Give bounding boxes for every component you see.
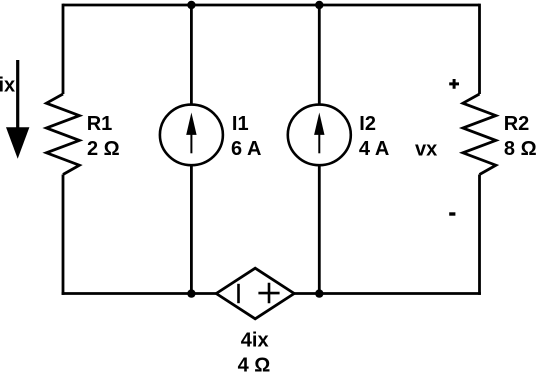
dependent source plus sign [258,283,279,304]
I2 arrow [314,113,324,154]
svg-text:ix: ix [0,74,15,96]
plus sign vx polarity [449,79,459,89]
svg-text:4 Ω: 4 Ω [238,354,271,372]
resistor R2 [463,94,496,175]
svg-text:4ix: 4ix [241,330,269,352]
svg-text:vx: vx [415,139,437,161]
dependent source minus bar [237,284,240,303]
current source I2 [288,105,351,166]
wire left lower segment [62,175,65,295]
wire I2 bottom stub [318,165,321,294]
minus sign vx polarity [449,212,455,215]
node A (top left junction) [187,1,195,9]
node C (bottom left junction) [187,289,195,297]
dependent source D1 (diamond) [216,268,294,319]
svg-text:2 Ω: 2 Ω [87,138,120,160]
ix current arrow [6,60,29,159]
svg-text:8 Ω: 8 Ω [504,138,537,160]
wire I1 bottom stub [190,165,193,294]
resistor R1 [46,94,79,175]
svg-text:I2: I2 [359,113,376,135]
wire I2 top stub [318,5,321,105]
node D (bottom right junction) [315,289,323,297]
I1 arrow [186,113,196,154]
svg-text:4 A: 4 A [359,138,389,160]
wire bottom rail left [62,292,217,295]
node B (top right junction) [315,1,323,9]
svg-text:R1: R1 [87,113,113,135]
wire bottom rail right [294,292,481,295]
wire right upper segment [478,4,481,94]
wire right lower segment [478,175,481,295]
wire left upper segment [62,4,65,94]
svg-text:I1: I1 [232,113,249,135]
current source I1 [160,105,223,166]
svg-text:6 A: 6 A [231,138,261,160]
wire I1 top stub [190,5,193,105]
svg-text:R2: R2 [504,113,530,135]
wire top rail [63,4,480,7]
